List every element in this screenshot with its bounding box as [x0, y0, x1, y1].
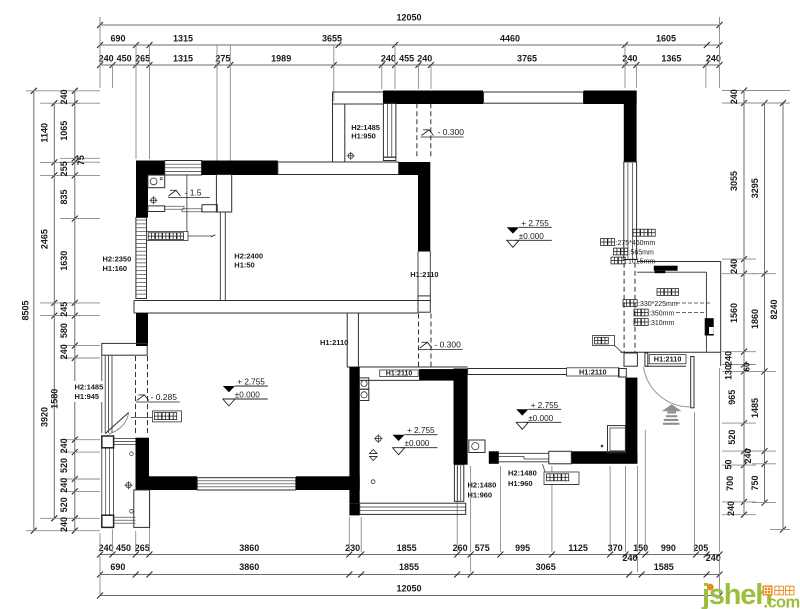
label box jianzhubaowenceng (insulation): [147, 231, 189, 240]
svg-text:240: 240: [59, 344, 69, 359]
svg-text:230: 230: [345, 543, 360, 553]
svg-text:8505: 8505: [21, 300, 31, 320]
svg-text:- 0.300: - 0.300: [434, 340, 461, 350]
svg-text:- 0.285: - 0.285: [151, 392, 178, 402]
level symbol -0.300 lower: [420, 342, 432, 348]
svg-text:240: 240: [59, 517, 69, 532]
svg-text:H1:950: H1:950: [351, 132, 376, 141]
dashed opening terrace: [416, 103, 418, 159]
kitchen cabinet edge line: [186, 175, 188, 236]
wall living bottom black west: [149, 476, 197, 490]
svg-text:H1:2110: H1:2110: [410, 270, 438, 279]
svg-text:H1:960: H1:960: [508, 479, 533, 488]
window right wall vertical: [624, 162, 637, 260]
label box pingtuichuang: [544, 472, 579, 485]
svg-text:+ 2.755: + 2.755: [407, 426, 435, 435]
svg-text:1580: 1580: [50, 389, 60, 409]
sliding door kitchen: [165, 206, 184, 209]
level marker living +2.755: [223, 386, 235, 392]
wall middle right black: [454, 369, 468, 465]
wall jamb black bottom west: [489, 451, 499, 464]
svg-text::330*225mm: :330*225mm: [638, 301, 678, 308]
entry arrow symbol: [662, 404, 682, 425]
window middle bottom: [360, 503, 466, 514]
bay window jamb square top: [102, 436, 114, 448]
dimension chain right outer (8240): [782, 103, 784, 530]
svg-text:1125: 1125: [568, 543, 588, 553]
svg-text:8240: 8240: [769, 299, 779, 319]
svg-text:130: 130: [724, 365, 734, 380]
wall living bottom black east: [296, 476, 360, 490]
svg-text:240: 240: [726, 501, 736, 516]
svg-text:H1:960: H1:960: [468, 491, 493, 500]
svg-text:750: 750: [750, 475, 760, 490]
svg-text::275*460mm: :275*460mm: [616, 240, 656, 247]
svg-text:3055: 3055: [729, 171, 739, 191]
label strong-power block: [633, 229, 640, 236]
svg-text::565mm: :565mm: [629, 249, 654, 256]
svg-text:±0.000: ±0.000: [519, 232, 544, 241]
svg-text:450: 450: [117, 54, 132, 64]
svg-text:12050: 12050: [396, 13, 421, 23]
wall living left black: [136, 313, 148, 346]
svg-text:±0.000: ±0.000: [235, 391, 260, 400]
svg-text:835: 835: [59, 189, 69, 204]
svg-text:450: 450: [116, 543, 131, 553]
svg-text:240: 240: [706, 553, 721, 563]
dimension chain top row 3: [100, 64, 720, 66]
svg-text:2465: 2465: [40, 229, 50, 249]
wall middle-top black: [419, 369, 466, 381]
svg-text:H1:2110: H1:2110: [386, 370, 413, 377]
door opening H1:2110 divider: [417, 251, 419, 296]
svg-text:240: 240: [729, 89, 739, 104]
wall bottom-rooms top line: [347, 366, 467, 368]
svg-text:60: 60: [743, 362, 752, 371]
svg-text:580: 580: [59, 323, 69, 338]
svg-text:H1:2110: H1:2110: [654, 355, 682, 364]
svg-text:205: 205: [693, 543, 708, 553]
bay window glazing lower: [101, 448, 103, 515]
wall kitchen top black east: [202, 161, 278, 176]
door jamb entry east: [645, 353, 648, 366]
symbol drain middle: [370, 450, 378, 461]
svg-text:H2:2400: H2:2400: [234, 252, 263, 261]
svg-text:240: 240: [99, 54, 114, 64]
fixture kitchen sink: [148, 175, 165, 188]
wall terrace left double line: [333, 104, 345, 162]
svg-text:1315: 1315: [173, 34, 193, 44]
svg-text:240: 240: [417, 54, 432, 64]
dimension chain right inner: [743, 91, 745, 515]
svg-text:240: 240: [724, 351, 734, 366]
wall insulated hatched left exterior: [136, 218, 147, 299]
bay window glazing upper: [101, 355, 103, 433]
svg-text:1315: 1315: [173, 54, 193, 64]
svg-text:1065: 1065: [59, 121, 69, 141]
dimension chain left inner: [74, 91, 76, 531]
window kitchen top: [165, 161, 202, 176]
bay connector lines top: [114, 438, 136, 440]
window terrace vertical H2:1485: [383, 103, 396, 157]
dimension chain left middle: [53, 103, 55, 518]
wall pier box divider bottom: [418, 296, 430, 312]
label box H1:2110 entry: [649, 355, 686, 364]
wall top black segment west: [383, 91, 483, 105]
svg-text:995: 995: [515, 543, 530, 553]
svg-text:240: 240: [622, 553, 637, 563]
svg-text:265: 265: [135, 54, 150, 64]
wall top black segment east: [584, 91, 637, 105]
svg-text:H2:2350: H2:2350: [103, 255, 132, 264]
svg-text:3655: 3655: [322, 34, 342, 44]
svg-text:1365: 1365: [661, 54, 681, 64]
dashed wall right (below window): [623, 263, 625, 352]
dimension chain bottom row 3 (12050): [100, 595, 720, 597]
svg-text:965: 965: [727, 390, 737, 405]
level marker middle +2.755: [393, 435, 405, 441]
window right-room bottom (pingtuichuang): [499, 452, 549, 454]
window pier outlined bottom: [549, 451, 572, 464]
dimension chain left outer (8505): [33, 91, 35, 531]
nook corner stub: [720, 352, 722, 366]
wall corridor thin vertical: [347, 313, 358, 367]
svg-text:1485: 1485: [750, 398, 760, 418]
door jamb kitchen east: [202, 205, 217, 212]
svg-text:700: 700: [725, 476, 735, 491]
svg-text:H1:160: H1:160: [103, 264, 128, 273]
dimension chain top row 1 (12050): [100, 24, 720, 26]
entry cabinet inner lines: [637, 271, 706, 273]
svg-text:690: 690: [110, 34, 125, 44]
svg-text:3860: 3860: [239, 562, 259, 572]
wall horizontal main (outlined double line): [134, 300, 430, 302]
svg-text:520: 520: [727, 430, 737, 445]
svg-text:1605: 1605: [656, 34, 676, 44]
svg-text:3295: 3295: [750, 178, 760, 198]
door leaf entry: [691, 357, 694, 408]
svg-text:240: 240: [743, 448, 753, 463]
level symbol -1.5 kitchen: [169, 190, 181, 196]
svg-text:4460: 4460: [500, 34, 520, 44]
svg-text:- 1.5: - 1.5: [185, 188, 202, 198]
svg-text:990: 990: [661, 543, 676, 553]
svg-text:255: 255: [59, 161, 69, 176]
svg-text:1860: 1860: [750, 309, 760, 329]
svg-text:520: 520: [59, 458, 69, 473]
svg-text:1630: 1630: [59, 251, 69, 271]
svg-text:H2:1480: H2:1480: [468, 481, 497, 490]
svg-text:1560: 1560: [729, 303, 739, 323]
svg-text:1855: 1855: [399, 562, 419, 572]
symbol small circles bay: [130, 452, 134, 456]
door jamb entry west: [624, 353, 637, 366]
label box neikaichuang: [153, 411, 182, 422]
symbol cross bay: [125, 481, 133, 489]
svg-text:275: 275: [215, 54, 230, 64]
dashed opening lower (-0.300): [418, 314, 420, 367]
svg-text:+ 2.755: + 2.755: [531, 401, 559, 410]
wall bay black pier: [136, 438, 150, 490]
wall nook outline right: [720, 262, 722, 353]
door jamb kitchen west: [148, 206, 165, 212]
window middle right vertical: [454, 465, 463, 502]
wall interior thin kitchen/dining: [219, 212, 221, 301]
extension lines from bottom chains: [99, 533, 101, 552]
logo chinese jushehui: [763, 586, 773, 596]
window living bottom: [197, 478, 296, 490]
symbol cross kitchen: [150, 196, 158, 204]
svg-text:3065: 3065: [536, 562, 556, 572]
wall pier outlined below living: [134, 490, 150, 527]
svg-text:+ 2.755: + 2.755: [237, 378, 265, 387]
label box H1:2110 middle doorway: [380, 370, 419, 377]
svg-text:- 0.300: - 0.300: [438, 127, 465, 137]
window top wall: [484, 92, 584, 103]
svg-text:H2:1480: H2:1480: [508, 469, 537, 478]
svg-text:+ 2.755: + 2.755: [521, 219, 549, 228]
svg-text:H1:945: H1:945: [75, 392, 100, 401]
svg-text:H1:2110: H1:2110: [320, 338, 348, 347]
bay window top stub: [102, 343, 147, 355]
label H2:2350 H1:160: [101, 254, 132, 273]
svg-text:12050: 12050: [396, 584, 421, 594]
svg-text:520: 520: [59, 497, 69, 512]
svg-text:690: 690: [110, 562, 125, 572]
label H1:2110 in band: [567, 368, 620, 376]
svg-text:245: 245: [59, 302, 69, 317]
wall vertical black dining/living divider: [418, 175, 430, 251]
svg-text:±0.000: ±0.000: [528, 414, 553, 423]
svg-text:3860: 3860: [239, 543, 259, 553]
fixture boxes with circles middle-left: [359, 378, 368, 389]
wall top-left segment of upper section (outlined): [333, 92, 384, 104]
wall right exterior top black: [624, 91, 637, 163]
fixture box with circle right-room west: [469, 440, 485, 453]
bay window jamb square bottom: [102, 515, 114, 527]
casement window leaf (neikaichuang): [105, 412, 129, 433]
door arc entry: [644, 367, 690, 407]
logo jsheh.com: [701, 579, 800, 609]
symbol cross middle: [374, 434, 383, 443]
svg-text:265: 265: [135, 543, 150, 553]
svg-text::310mm: :310mm: [649, 320, 674, 327]
svg-text:1585: 1585: [654, 562, 674, 572]
wall middle left black: [349, 367, 359, 503]
svg-text:H2:1485: H2:1485: [75, 383, 104, 392]
svg-text:240: 240: [381, 54, 396, 64]
wall band under terrace (outlined): [278, 162, 399, 175]
svg-text:240: 240: [729, 259, 739, 274]
dimension chain top row 2: [100, 44, 720, 46]
svg-text::350mm: :350mm: [649, 310, 674, 317]
svg-text:240: 240: [706, 54, 721, 64]
label H2:1485 H1:945 bay: [73, 381, 104, 402]
svg-text:.com: .com: [764, 594, 800, 609]
svg-text:455: 455: [399, 54, 414, 64]
svg-text:240: 240: [59, 89, 69, 104]
wall pier box right-room top east: [619, 369, 627, 378]
svg-text:240: 240: [59, 438, 69, 453]
svg-text:±0.000: ±0.000: [405, 439, 430, 448]
level symbol -0.300 terrace: [422, 130, 434, 136]
wall middle bottom corner black: [349, 503, 359, 515]
svg-text:150: 150: [633, 543, 648, 553]
svg-text:75: 75: [76, 155, 86, 165]
level marker right-room +2.755: [516, 409, 528, 415]
dimension chain bottom row 2: [100, 574, 720, 576]
dashed wall opening above bay: [135, 356, 137, 436]
svg-text:jsheh: jsheh: [701, 579, 772, 609]
svg-text:3920: 3920: [40, 407, 50, 427]
fixture corner cabinet right-room: [608, 426, 626, 453]
wall right-room bottom black: [571, 451, 637, 464]
fixture strong-power box black: [654, 266, 678, 271]
svg-text:1989: 1989: [271, 54, 291, 64]
symbol cross terrace: [347, 152, 355, 160]
label menjin (door access): [593, 336, 615, 346]
dimension chain bottom row 1: [100, 554, 720, 556]
wall kitchen top black west: [136, 161, 165, 176]
svg-text:240: 240: [99, 543, 114, 553]
bay connector lines bottom: [114, 516, 136, 518]
svg-text:260: 260: [453, 543, 468, 553]
wall right-room right black: [625, 378, 637, 464]
label weak-power block: [657, 289, 664, 296]
svg-text:H1:2110: H1:2110: [579, 368, 607, 377]
dimension chain right middle: [764, 103, 766, 503]
fixture weak-power box black: [705, 318, 714, 335]
wall nook outline top: [637, 261, 721, 263]
svg-text:1140: 1140: [40, 123, 50, 143]
svg-text:3765: 3765: [517, 54, 537, 64]
extension lines from top chains: [99, 25, 101, 88]
level symbol -0.285 bay: [137, 395, 149, 401]
wall kitchen top black far-east + corner: [399, 162, 431, 175]
level marker upper-right +2.755: [507, 227, 519, 233]
svg-text:575: 575: [475, 543, 490, 553]
svg-text:240: 240: [59, 478, 69, 493]
wall right-room top band outlined: [468, 369, 619, 375]
wall kitchen left exterior black: [136, 175, 148, 218]
svg-text:50: 50: [724, 459, 734, 469]
svg-text::1015mm: :1015mm: [626, 258, 655, 265]
svg-text:H1:50: H1:50: [234, 261, 254, 270]
svg-text:1855: 1855: [397, 543, 417, 553]
wall kitchen right (outlined pier): [216, 175, 231, 213]
wall entry band lines: [620, 351, 720, 353]
